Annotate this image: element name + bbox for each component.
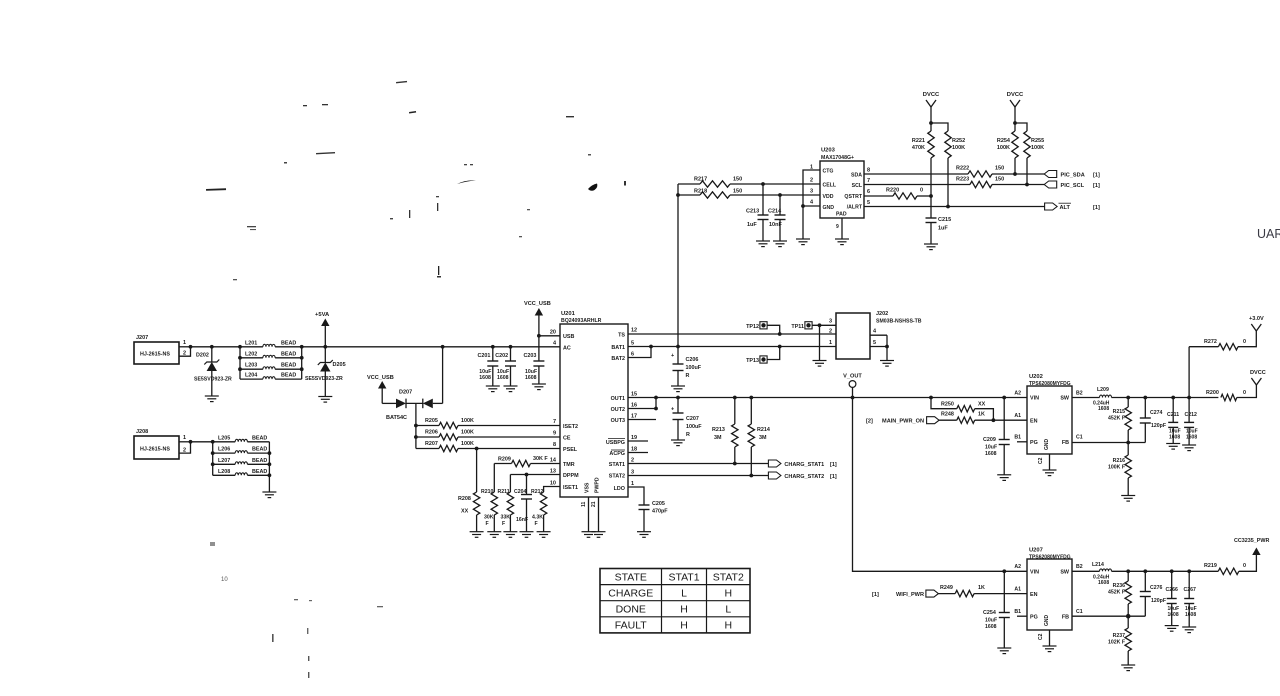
resistor R217 xyxy=(678,183,700,185)
inductor L202 ferrite bead xyxy=(240,357,263,359)
svg-text:SW: SW xyxy=(1060,396,1070,402)
svg-text:CTG: CTG xyxy=(823,169,834,175)
pin 5 J202 xyxy=(870,346,887,348)
resistor R205 xyxy=(416,425,439,427)
resistor R211 xyxy=(509,475,511,493)
node C213 tap xyxy=(761,182,765,186)
wire BAT2 xyxy=(628,347,651,358)
node +5VA tap xyxy=(323,345,327,349)
svg-text:R272: R272 xyxy=(1204,339,1217,345)
wire bead bus right xyxy=(301,347,303,379)
svg-text:EN: EN xyxy=(1030,592,1038,598)
svg-text:452K F: 452K F xyxy=(1108,590,1125,596)
ground C212 xyxy=(1182,444,1196,446)
svg-text:CHARGE: CHARGE xyxy=(608,587,653,599)
svg-text:GND: GND xyxy=(1044,615,1050,627)
diode D205 TVS xyxy=(324,347,326,363)
capacitor C254 xyxy=(1002,569,1006,573)
node PSEL divider xyxy=(475,447,479,451)
svg-text:1608: 1608 xyxy=(497,375,509,381)
wire STAT2 xyxy=(628,475,768,477)
svg-text:15: 15 xyxy=(631,392,637,398)
svg-text:1uF: 1uF xyxy=(938,226,948,232)
resistor R208 xyxy=(476,449,478,493)
svg-text:R: R xyxy=(686,432,690,438)
svg-text:XX: XX xyxy=(461,509,469,515)
svg-text:R213: R213 xyxy=(712,427,725,433)
svg-text:SE5SVD923-ZR: SE5SVD923-ZR xyxy=(305,376,343,382)
svg-text:L201: L201 xyxy=(245,340,257,346)
resistor R237 xyxy=(1127,616,1129,628)
svg-text:10: 10 xyxy=(221,577,228,583)
node TP11 gnd tap xyxy=(818,323,822,327)
svg-text:R222: R222 xyxy=(956,166,969,172)
svg-text:A2: A2 xyxy=(1014,390,1021,396)
svg-text:PIC_SDA: PIC_SDA xyxy=(1061,173,1085,179)
svg-text:R200: R200 xyxy=(1206,390,1219,396)
node L203 right xyxy=(300,367,304,371)
svg-text:100K: 100K xyxy=(461,430,474,436)
resistor R249 xyxy=(938,593,955,595)
svg-text:TP13: TP13 xyxy=(746,358,759,364)
capacitor C213 xyxy=(762,184,764,215)
svg-text:102K F: 102K F xyxy=(1108,640,1125,646)
svg-text:8: 8 xyxy=(867,168,870,174)
svg-text:33K: 33K xyxy=(501,515,511,521)
svg-text:0: 0 xyxy=(1243,563,1246,569)
capacitor C276 feedforward xyxy=(1143,569,1147,573)
wire U202 GND pin xyxy=(1049,454,1051,470)
svg-text:H: H xyxy=(680,620,688,632)
connector J202 SM03B-NSHSS-TB xyxy=(836,313,870,359)
wire USBPG stub xyxy=(628,440,648,442)
wire bead bus left xyxy=(239,347,241,379)
svg-text:[1]: [1] xyxy=(830,462,837,468)
node L201 left xyxy=(238,345,242,349)
ground VSS xyxy=(582,531,596,533)
wire STAT1 xyxy=(628,463,768,465)
svg-text:18: 18 xyxy=(631,447,637,453)
svg-text:LDO: LDO xyxy=(614,486,625,492)
resistor R210 xyxy=(493,464,495,493)
svg-text:XX: XX xyxy=(978,402,986,408)
svg-text:100K: 100K xyxy=(952,145,965,151)
resistor R236 xyxy=(1126,569,1130,573)
svg-text:100uF: 100uF xyxy=(686,424,702,430)
svg-text:PG: PG xyxy=(1030,615,1038,621)
svg-text:120pF: 120pF xyxy=(1151,423,1166,429)
wire to R272 xyxy=(1188,347,1190,398)
svg-text:10uF: 10uF xyxy=(985,618,997,624)
wire D207 common node xyxy=(415,403,417,448)
svg-text:L: L xyxy=(681,587,687,599)
svg-text:STAT2: STAT2 xyxy=(713,571,744,583)
node STAT1 pullup xyxy=(733,462,737,466)
svg-text:F: F xyxy=(535,521,538,527)
svg-text:470K: 470K xyxy=(912,145,925,151)
table STAT states xyxy=(600,569,750,633)
op-amp U203 fuel gauge MAX17048G+ xyxy=(820,161,864,218)
svg-text:UAR: UAR xyxy=(1257,227,1280,241)
svg-text:V_OUT: V_OUT xyxy=(843,374,862,380)
ground D205 xyxy=(318,396,332,398)
inductor L214 xyxy=(1072,570,1100,572)
svg-text:R216: R216 xyxy=(1113,458,1126,464)
svg-text:TP11: TP11 xyxy=(791,324,804,330)
svg-text:C266: C266 xyxy=(1166,587,1179,593)
resistor R254 xyxy=(1012,131,1018,158)
op-amp U201 charger BQ24093ARHLR xyxy=(560,324,628,497)
svg-text:BEAD: BEAD xyxy=(252,435,267,441)
node J207 junction xyxy=(189,345,193,349)
inductor L209 xyxy=(1072,397,1100,399)
capacitor C204 xyxy=(526,475,528,495)
capacitor C207 polarized xyxy=(677,398,679,414)
svg-text:5: 5 xyxy=(873,340,876,346)
svg-text:C213: C213 xyxy=(746,209,759,215)
svg-text:MAIN_PWR_ON: MAIN_PWR_ON xyxy=(882,419,924,425)
svg-text:C276: C276 xyxy=(1150,585,1163,591)
node ALRT cap tap xyxy=(946,205,950,209)
svg-text:14: 14 xyxy=(550,458,557,464)
node DPPM cap tap xyxy=(525,473,529,477)
inductor L203 ferrite bead xyxy=(240,368,263,370)
connector J208 xyxy=(134,436,179,459)
svg-text:1K: 1K xyxy=(978,412,985,418)
svg-text:1: 1 xyxy=(183,435,186,441)
svg-text:H: H xyxy=(724,587,732,599)
ground U202 xyxy=(1043,469,1057,471)
ground U207 xyxy=(1043,645,1057,647)
op-amp U202 buck TPS62080MYFDG xyxy=(1027,386,1072,454)
svg-text:A2: A2 xyxy=(1014,564,1021,570)
svg-text:PWPD: PWPD xyxy=(595,477,601,493)
resistor R255 xyxy=(1024,131,1030,158)
svg-text:L204: L204 xyxy=(245,373,257,379)
node J208 junction xyxy=(189,440,193,444)
svg-text:R223: R223 xyxy=(956,177,969,183)
svg-text:120pF: 120pF xyxy=(1151,598,1166,604)
svg-text:H: H xyxy=(680,604,688,616)
ground C203 xyxy=(532,383,546,385)
svg-text:C254: C254 xyxy=(983,610,996,616)
node L203 left xyxy=(238,367,242,371)
svg-text:9: 9 xyxy=(553,431,556,437)
node SCL pullup xyxy=(1025,183,1029,187)
svg-text:VCC_USB: VCC_USB xyxy=(524,301,551,307)
svg-text:R219: R219 xyxy=(1204,563,1217,569)
svg-text:C267: C267 xyxy=(1184,587,1197,593)
svg-text:C203: C203 xyxy=(524,353,537,359)
pin 2 J207 xyxy=(179,347,191,356)
node FB divider xyxy=(1126,441,1130,445)
svg-text:[1]: [1] xyxy=(1093,205,1100,211)
svg-text:C211: C211 xyxy=(1167,412,1179,418)
wire battery rail xyxy=(302,346,560,348)
svg-text:D205: D205 xyxy=(333,362,346,368)
node L207 right xyxy=(268,462,272,466)
svg-text:L209: L209 xyxy=(1097,387,1109,393)
svg-text:WIFI_PWR: WIFI_PWR xyxy=(896,592,924,598)
svg-text:0: 0 xyxy=(1243,390,1246,396)
svg-text:BEAD: BEAD xyxy=(252,458,267,464)
pin 4 J202 xyxy=(870,334,887,336)
svg-text:F: F xyxy=(502,521,505,527)
svg-text:ISET1: ISET1 xyxy=(563,485,578,491)
svg-text:BAT2: BAT2 xyxy=(611,356,625,362)
svg-text:R217: R217 xyxy=(694,177,707,183)
svg-text:SM03B-NSHSS-TB: SM03B-NSHSS-TB xyxy=(876,319,922,325)
svg-text:100K: 100K xyxy=(1031,145,1044,151)
svg-text:USB: USB xyxy=(563,334,574,340)
svg-text:SDA: SDA xyxy=(851,173,862,179)
capacitor C267 xyxy=(1187,569,1191,573)
svg-text:PAD: PAD xyxy=(836,212,847,218)
node L202 right xyxy=(300,356,304,360)
svg-text:R254: R254 xyxy=(997,138,1011,144)
svg-text:C2: C2 xyxy=(1038,457,1044,464)
resistor R221 xyxy=(928,131,934,158)
svg-text:FAULT: FAULT xyxy=(615,620,647,632)
resistor R215 xyxy=(1126,396,1130,400)
svg-text:AC: AC xyxy=(563,346,571,352)
ground C206 xyxy=(671,385,685,387)
svg-text:TPS62080MYFDG: TPS62080MYFDG xyxy=(1029,381,1071,387)
svg-text:L214: L214 xyxy=(1092,562,1104,568)
svg-text:FB: FB xyxy=(1062,440,1069,446)
node L202 left xyxy=(238,356,242,360)
svg-text:FB: FB xyxy=(1062,615,1069,621)
op-amp U207 buck TPS62080MYFDG xyxy=(1027,559,1072,630)
ground R216 xyxy=(1121,495,1135,497)
svg-text:/ALRT: /ALRT xyxy=(847,205,863,211)
resistor R219 xyxy=(1218,568,1239,574)
resistor R207 xyxy=(416,448,439,450)
flag PIC_SCL xyxy=(1044,181,1057,188)
svg-text:C207: C207 xyxy=(686,416,699,422)
node U207 FB divider xyxy=(1126,614,1131,619)
svg-text:1608: 1608 xyxy=(985,451,997,457)
svg-text:1: 1 xyxy=(829,340,832,346)
ground R237 xyxy=(1121,664,1135,666)
svg-text:R248: R248 xyxy=(941,412,954,418)
resistor R214 xyxy=(749,396,753,400)
svg-text:1: 1 xyxy=(183,340,186,346)
wire DPPM xyxy=(510,474,560,476)
svg-text:R237: R237 xyxy=(1113,633,1126,639)
svg-text:150: 150 xyxy=(733,177,742,183)
inductor L207 ferrite bead xyxy=(213,463,236,465)
node TP12 tap xyxy=(778,332,782,336)
svg-text:L206: L206 xyxy=(218,447,230,453)
svg-text:16: 16 xyxy=(631,403,637,409)
svg-text:[1]: [1] xyxy=(830,474,837,480)
wire J208 bead bus right xyxy=(268,442,270,492)
svg-text:BEAD: BEAD xyxy=(281,373,296,379)
svg-text:11: 11 xyxy=(581,501,587,507)
wire U207 FB xyxy=(1072,615,1145,617)
node J202 gnd join xyxy=(885,345,889,349)
svg-text:C274: C274 xyxy=(1150,410,1163,416)
svg-text:BEAD: BEAD xyxy=(252,447,267,453)
resistor R222 xyxy=(968,171,992,177)
svg-text:L205: L205 xyxy=(218,435,230,441)
svg-text:100K F: 100K F xyxy=(1108,465,1125,471)
wire TS xyxy=(628,333,836,335)
node L206 left xyxy=(211,451,215,455)
svg-text:30K: 30K xyxy=(484,515,494,521)
capacitor C202 xyxy=(509,345,513,349)
wire V_OUT to U207 xyxy=(853,398,1028,572)
svg-text:B1: B1 xyxy=(1014,609,1021,615)
wire ACPG stub xyxy=(628,452,648,454)
svg-text:C212: C212 xyxy=(1185,412,1198,418)
ground C204 xyxy=(520,531,534,533)
svg-text:[2]: [2] xyxy=(866,419,873,425)
svg-text:BEAD: BEAD xyxy=(281,363,296,369)
svg-text:A1: A1 xyxy=(1014,587,1021,593)
wire SCL xyxy=(864,184,970,186)
node STAT2 pullup xyxy=(749,474,753,478)
svg-text:C204: C204 xyxy=(514,489,527,495)
svg-text:10uF: 10uF xyxy=(497,369,509,375)
node DVCC2 xyxy=(1013,121,1017,125)
wire U207 GND pin xyxy=(1049,630,1051,646)
svg-text:VIN: VIN xyxy=(1030,396,1039,402)
svg-text:452K F: 452K F xyxy=(1108,416,1125,422)
svg-text:R210: R210 xyxy=(481,489,494,495)
node OUT2 join xyxy=(654,396,658,400)
svg-text:13: 13 xyxy=(550,469,556,475)
ground J202 xyxy=(880,360,894,362)
svg-text:TP12: TP12 xyxy=(746,324,759,330)
node C206 tap xyxy=(676,345,680,349)
capacitor C211 xyxy=(1171,396,1175,400)
svg-text:100K: 100K xyxy=(461,441,474,447)
svg-text:F: F xyxy=(486,521,489,527)
ground C213 xyxy=(756,240,770,242)
svg-text:L: L xyxy=(725,604,731,616)
flag PIC_SDA xyxy=(1044,171,1057,178)
svg-text:6: 6 xyxy=(631,352,634,358)
node DVCC1 xyxy=(929,121,933,125)
ground R208 xyxy=(470,531,484,533)
svg-text:DVCC: DVCC xyxy=(1007,92,1024,98)
inductor L201 ferrite bead xyxy=(240,346,263,348)
node L205 left xyxy=(211,440,215,444)
ground C214 xyxy=(773,240,787,242)
svg-text:1608: 1608 xyxy=(1185,612,1196,618)
svg-text:1608: 1608 xyxy=(1168,612,1179,618)
svg-text:10uF: 10uF xyxy=(525,369,537,375)
svg-text:C202: C202 xyxy=(495,353,508,359)
svg-text:R206: R206 xyxy=(425,430,438,436)
svg-text:EN: EN xyxy=(1030,418,1038,424)
svg-text:0: 0 xyxy=(1243,339,1246,345)
node CE tap xyxy=(414,435,418,439)
svg-text:470pF: 470pF xyxy=(652,509,668,515)
svg-text:R215: R215 xyxy=(1113,409,1126,415)
svg-text:B2: B2 xyxy=(1076,564,1083,570)
svg-text:L207: L207 xyxy=(218,458,230,464)
svg-text:MAX17048G+: MAX17048G+ xyxy=(821,155,854,161)
svg-text:R252: R252 xyxy=(952,138,965,144)
svg-text:1608: 1608 xyxy=(1098,580,1109,586)
resistor R223 xyxy=(970,181,992,187)
svg-text:OUT2: OUT2 xyxy=(611,407,625,413)
svg-text:9: 9 xyxy=(836,224,839,230)
svg-text:CHARG_STAT1: CHARG_STAT1 xyxy=(784,462,824,468)
svg-text:R250: R250 xyxy=(941,402,954,408)
svg-text:C215: C215 xyxy=(938,217,951,223)
svg-text:CC3235_PWR: CC3235_PWR xyxy=(1234,538,1269,544)
pin 1 J208 xyxy=(179,441,191,443)
node QSTRT xyxy=(929,194,933,198)
wire /ALRT xyxy=(864,206,1045,208)
svg-text:R220: R220 xyxy=(886,188,899,194)
node SDA pullup xyxy=(1013,172,1017,176)
svg-text:VDD: VDD xyxy=(823,194,834,200)
ground C201 xyxy=(486,385,500,387)
svg-text:3: 3 xyxy=(829,319,832,325)
svg-text:BEAD: BEAD xyxy=(281,351,296,357)
ground C266 xyxy=(1165,625,1179,627)
svg-text:TMR: TMR xyxy=(563,462,575,468)
svg-text:C214: C214 xyxy=(768,209,782,215)
flag CHARG_STAT1 xyxy=(768,460,781,467)
svg-text:R249: R249 xyxy=(940,585,953,591)
svg-text:3: 3 xyxy=(810,189,813,195)
ground TP11 xyxy=(813,360,827,362)
capacitor C206 polarized xyxy=(677,347,679,365)
svg-text:5: 5 xyxy=(631,341,634,347)
svg-text:PG: PG xyxy=(1030,440,1038,446)
svg-text:L202: L202 xyxy=(245,351,257,357)
svg-text:ACPG: ACPG xyxy=(609,451,625,457)
ground R211 xyxy=(503,531,517,533)
svg-text:12: 12 xyxy=(631,328,637,334)
svg-text:VCC_USB: VCC_USB xyxy=(367,375,394,381)
svg-text:U207: U207 xyxy=(1029,548,1043,554)
svg-text:C209: C209 xyxy=(983,437,996,443)
svg-text:3M: 3M xyxy=(714,435,722,441)
wire PG stub xyxy=(1017,441,1027,443)
svg-text:TS: TS xyxy=(618,333,625,339)
svg-text:R209: R209 xyxy=(498,457,511,463)
wire CELL xyxy=(763,183,820,185)
svg-text:R207: R207 xyxy=(425,441,438,447)
ground battery negative xyxy=(262,491,276,493)
node C207 tap xyxy=(676,396,680,400)
svg-text:L208: L208 xyxy=(218,469,230,475)
inductor L208 ferrite bead xyxy=(213,474,236,476)
svg-text:3: 3 xyxy=(631,470,634,476)
ground PAD xyxy=(835,238,849,240)
svg-text:R255: R255 xyxy=(1031,138,1044,144)
flag ALT xyxy=(1045,203,1058,210)
svg-text:STAT2: STAT2 xyxy=(609,474,625,480)
svg-text:100K: 100K xyxy=(461,418,474,424)
svg-text:4.3K: 4.3K xyxy=(532,515,543,521)
svg-text:DONE: DONE xyxy=(616,604,646,616)
wire VDD xyxy=(780,194,820,196)
ground C202 xyxy=(504,385,518,387)
svg-text:B2: B2 xyxy=(1076,390,1083,396)
flag CHARG_STAT2 xyxy=(768,472,781,479)
capacitor C266 xyxy=(1170,569,1174,573)
svg-text:QSTRT: QSTRT xyxy=(844,194,862,200)
pin 1 J207 xyxy=(179,346,191,348)
